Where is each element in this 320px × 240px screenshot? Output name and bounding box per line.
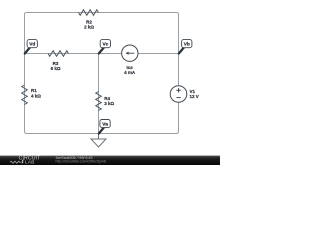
svg-text:3 kΩ: 3 kΩ	[104, 101, 114, 106]
svg-text:Vd: Vd	[29, 41, 35, 47]
svg-text:4 kΩ: 4 kΩ	[31, 94, 41, 99]
svg-text:http://circuitlab.com/c/f9kc5p: http://circuitlab.com/c/f9kc5pm8	[56, 160, 106, 164]
svg-text:R1: R1	[31, 88, 37, 93]
svg-text:6 kΩ: 6 kΩ	[51, 66, 61, 71]
svg-text:12 V: 12 V	[190, 94, 199, 99]
svg-text:LAB: LAB	[25, 160, 35, 165]
svg-text:Vc: Vc	[102, 41, 108, 47]
svg-text:4 mA: 4 mA	[124, 70, 136, 75]
svg-text:Vb: Vb	[184, 41, 190, 47]
svg-text:2 kΩ: 2 kΩ	[84, 25, 94, 30]
svg-text:Va: Va	[102, 121, 108, 127]
